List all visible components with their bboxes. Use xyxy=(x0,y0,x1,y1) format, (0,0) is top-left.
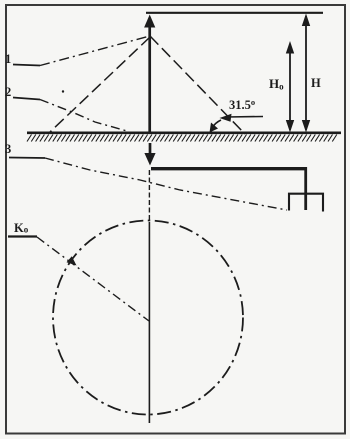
svg-text:H: H xyxy=(311,76,321,90)
svg-text:3: 3 xyxy=(5,142,11,156)
vertical axis through circle xyxy=(148,222,150,423)
angle arc with arrowhead xyxy=(212,120,222,130)
ground hatching xyxy=(27,135,337,142)
ground line xyxy=(27,131,341,134)
leader line for label 1 xyxy=(13,37,148,66)
thick feed line vertical drop xyxy=(304,167,307,210)
ray from mast top to ground right (31.5 deg ray) xyxy=(150,36,245,134)
angle arc arrowhead xyxy=(210,123,219,133)
thick feed line horizontal xyxy=(151,167,307,170)
Ko leader arrowhead on circle xyxy=(67,256,77,265)
dimension Ho line xyxy=(286,41,294,133)
down arrow below ground xyxy=(144,143,155,166)
Ko leader line xyxy=(8,237,149,322)
mast vertical line (antenna) xyxy=(144,15,155,134)
dipole bracket xyxy=(289,194,323,212)
dimension H line xyxy=(302,14,310,133)
svg-text:2: 2 xyxy=(5,85,11,99)
leader line for label 2 xyxy=(13,98,127,132)
vertical axis below (dashed upper part) xyxy=(148,170,150,222)
angle reference horizontal line with left arrowhead xyxy=(220,114,264,122)
ray from mast top to ground left xyxy=(50,37,150,132)
coverage circle Ko (dashed) xyxy=(53,221,243,415)
svg-text:1: 1 xyxy=(5,52,11,66)
stray dot mark xyxy=(62,90,64,92)
top horizontal line xyxy=(146,12,323,14)
leader line for label 3 xyxy=(9,158,287,211)
